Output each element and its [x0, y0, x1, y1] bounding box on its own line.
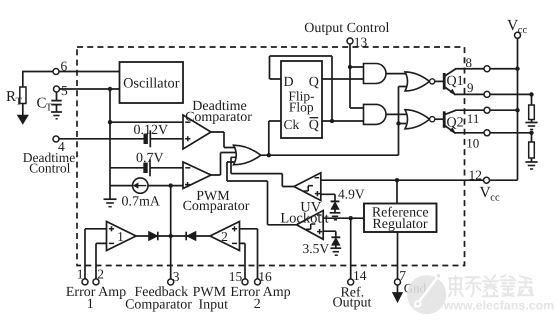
svg-text:16: 16 [258, 269, 272, 284]
deadtime comparator triangle [183, 115, 211, 149]
svg-text:2: 2 [97, 266, 104, 281]
UV comp1 hysteresis symbol [304, 186, 313, 191]
svg-text:Comparator: Comparator [125, 297, 192, 312]
node pin11 to Vcc rail [515, 108, 519, 112]
svg-text:cc: cc [518, 25, 528, 36]
pin 7 terminal [395, 279, 401, 285]
wire 3.5V zener to ground [335, 245, 337, 248]
svg-text:Output: Output [333, 296, 372, 311]
wire flip-flop Qbar to AND2 [322, 120, 365, 122]
wire flip-flop D loop from Qbar [270, 56, 333, 121]
svg-text:T: T [16, 97, 23, 108]
AND gate 2 [364, 104, 387, 124]
wire after 0.7V battery [151, 167, 184, 169]
PWM comparator plus [185, 182, 190, 187]
wire UV comp2 plus to 3.5V zener [323, 231, 336, 237]
svg-text:0.12V: 0.12V [134, 123, 169, 138]
error amp 2 minus [232, 242, 237, 244]
svg-text:Lockout: Lockout [280, 210, 328, 226]
svg-text:11: 11 [467, 111, 480, 126]
node CT sawtooth at pin5 wire [108, 87, 112, 91]
wire UV comp1 plus to 4.9V zener [320, 194, 335, 201]
diode D2 [187, 232, 196, 241]
error amp 2 plus [232, 226, 237, 231]
svg-text:R: R [6, 89, 16, 105]
transistor Q1 emitter arrow [450, 89, 455, 94]
wire pin5 to oscillator [57, 88, 120, 90]
svg-text:Ck: Ck [284, 117, 300, 132]
error amp 2 triangle [210, 222, 240, 251]
svg-text:Q2: Q2 [447, 116, 464, 131]
node ref output junction [349, 216, 353, 220]
pin 8 terminal [484, 66, 490, 72]
svg-text:9: 9 [467, 80, 474, 95]
svg-text:13: 13 [354, 34, 368, 49]
wire pin10 row to load [454, 132, 532, 134]
svg-text:15: 15 [229, 269, 243, 284]
svg-text:4.9V: 4.9V [338, 186, 365, 201]
reference regulator box [364, 204, 437, 233]
svg-text:10: 10 [466, 136, 479, 151]
wire Q2 emitter [444, 125, 455, 133]
svg-text:8: 8 [466, 55, 473, 70]
node feedback diode junction [169, 234, 173, 238]
transistor Q2 emitter arrow [450, 128, 455, 133]
node pin8 to Vcc rail [515, 67, 519, 71]
wire clock to flip-flop Ck [269, 121, 281, 155]
watermark logo disc [407, 275, 446, 314]
Qbar overline [310, 117, 319, 119]
wire diode row node [136, 235, 210, 237]
capacitor CT bottom lead [56, 105, 58, 112]
UV comp1 plus [315, 191, 320, 196]
deadtime comparator plus [185, 136, 190, 141]
UV comparator 2 triangle [297, 211, 324, 240]
svg-text:5: 5 [61, 83, 68, 98]
pin 3 terminal [168, 279, 174, 285]
wire pin6 to oscillator [22, 71, 120, 73]
wire reference regulator to pin7 ground [397, 232, 399, 294]
wire flip-flop Q to AND1 [322, 78, 365, 80]
UV comp2 minus [317, 214, 322, 216]
pin 13 terminal [347, 38, 353, 44]
wire 0.7V to PWM minus [110, 167, 144, 169]
pin 14 terminal [348, 279, 354, 285]
wire 4.9V zener to ground [334, 209, 336, 213]
RT down arrow [18, 115, 28, 124]
deadtime comparator minus [185, 121, 190, 123]
zener 4.9V [331, 200, 340, 202]
flip-flop box [281, 61, 322, 138]
Vcc terminal terminal [515, 32, 521, 38]
UV comp1 minus [315, 177, 320, 179]
wire PWM comp output to OR [211, 153, 238, 176]
svg-text:Q: Q [309, 118, 319, 133]
error amp 1 minus [109, 242, 114, 244]
wire EA2 minus to pin15 [240, 243, 246, 279]
wire RT bottom lead [22, 104, 24, 117]
wire UV comp1 output to OR [231, 157, 295, 186]
wire PWM signal to NOR inputs [399, 87, 407, 156]
NOR gate 1 [405, 72, 430, 91]
wire Q1 emitter [444, 87, 455, 95]
battery 0.7V [143, 163, 147, 173]
wire deadtime minus input [110, 121, 184, 123]
svg-text:1: 1 [77, 266, 84, 281]
node pin10 to load R2 [529, 131, 533, 135]
wire pin9 row to load [454, 93, 532, 95]
svg-text:T: T [46, 103, 53, 114]
node clock junction [267, 153, 271, 157]
diode D1 [149, 232, 158, 241]
svg-text:Flop: Flop [289, 100, 314, 115]
svg-text:0.7mA: 0.7mA [122, 195, 161, 210]
pin 10 terminal [484, 130, 490, 136]
svg-text:14: 14 [353, 268, 367, 283]
pin 1 terminal [82, 279, 88, 285]
transistor Q1 base bar [443, 73, 446, 90]
svg-text:2: 2 [254, 297, 261, 312]
svg-text:Oscillator: Oscillator [123, 76, 180, 92]
wire branch to NOR2 input [399, 123, 407, 125]
svg-text:Error Amp: Error Amp [66, 285, 126, 300]
svg-text:Input: Input [199, 297, 229, 312]
wire emitter load R1 leads [531, 94, 533, 122]
svg-text:1: 1 [117, 229, 124, 244]
node Qbar-D loop junction [330, 119, 334, 123]
pin 16 terminal [255, 279, 261, 285]
wire UV comp2 output to OR [227, 162, 297, 225]
wire AND2 to NOR2 [386, 113, 407, 115]
UV comp2 hysteresis symbol [306, 224, 315, 229]
wire feedback vertical to pin3 [170, 186, 172, 280]
wire Q2 collector [444, 110, 456, 114]
wire pin14 ref output [350, 218, 352, 280]
svg-text:3.5V: 3.5V [303, 241, 330, 256]
error amp 1 triangle [107, 222, 137, 251]
IC boundary dashed box [77, 47, 465, 266]
pin 6 terminal [53, 69, 59, 75]
wire pin11 row to Vcc [455, 109, 518, 111]
wire AND1 to NOR1 [385, 73, 406, 75]
wire OR gate output [261, 154, 399, 156]
wire emitter load R2 leads [531, 133, 533, 162]
watermark chinese text [449, 275, 533, 296]
emitter load resistor R2 [529, 142, 535, 158]
pin 12 terminal [484, 177, 490, 183]
ground under sawtooth bus [104, 198, 117, 200]
emitter load resistor R1 [529, 105, 535, 120]
svg-text:Regulator: Regulator [372, 217, 428, 232]
wire EA2 plus to pin16 [240, 229, 258, 280]
zener 3.5V [331, 236, 340, 238]
svg-text:12: 12 [469, 167, 483, 182]
svg-text:6: 6 [61, 59, 68, 74]
ground under load R2 [525, 161, 537, 163]
OR gate (deadtime/PWM/UV) [234, 145, 261, 165]
capacitor CT top lead [56, 89, 58, 100]
pin 9 terminal [484, 91, 490, 97]
wire deadtime comp output to OR [211, 132, 238, 148]
error amp 1 plus [109, 226, 114, 231]
pin7 ground arrow [393, 293, 403, 302]
svg-text:0.7V: 0.7V [136, 151, 164, 166]
svg-text:Control: Control [29, 160, 71, 175]
wire current source to PWM plus [148, 185, 184, 187]
node PWM signal to NOR2 junction [396, 121, 400, 125]
transistor Q2 base bar [443, 111, 446, 128]
node pin13 to AND1 junction [348, 65, 352, 69]
svg-text:2: 2 [221, 229, 228, 244]
NOR gate 2 [405, 110, 430, 129]
wire current source left [110, 185, 133, 187]
watermark logo cut line [415, 274, 441, 308]
svg-text:Output Control: Output Control [304, 21, 389, 36]
pin 15 terminal [242, 279, 248, 285]
battery 0.12V [144, 134, 148, 144]
current source 0.7mA [133, 178, 148, 193]
wire after 0.12V battery [151, 138, 184, 140]
ground under 3.5V zener [330, 247, 341, 249]
wire UV comp2 minus to reference regulator [323, 217, 365, 219]
wire Vcc rail [517, 38, 519, 180]
ground under 4.9V zener [330, 212, 341, 214]
svg-text:cc: cc [490, 192, 500, 203]
node Vcc to reference regulator [395, 178, 399, 182]
ground under load R1 [525, 122, 537, 124]
node feedback at PWM plus [169, 183, 173, 187]
PWM comparator triangle [183, 162, 211, 189]
wire Q1 collector [444, 69, 456, 77]
wire NOR1 to Q1 base [435, 80, 444, 82]
wire EA1 plus to pin1 [85, 229, 107, 280]
svg-text:Comparator: Comparator [183, 199, 250, 214]
UV comparator 1 triangle [294, 173, 321, 201]
ground under CT [51, 111, 62, 113]
svg-text:Q1: Q1 [447, 74, 464, 89]
resistor RT lead [22, 72, 24, 88]
svg-text:1: 1 [87, 297, 94, 312]
AND gate 1 [364, 64, 387, 84]
node deadtime ramp junction [108, 120, 112, 124]
wire pin13 output control [350, 44, 365, 109]
wire Vcc feed to reference regulator [396, 180, 398, 203]
pin 5 terminal [54, 86, 60, 92]
wire NOR2 to Q2 base [435, 118, 444, 120]
pin 11 terminal [484, 107, 490, 113]
capacitor CT [51, 100, 61, 102]
svg-text:Comparator: Comparator [185, 110, 252, 125]
oscillator box [120, 62, 184, 103]
pin 4 terminal [53, 136, 59, 142]
UV comp2 plus [317, 229, 322, 234]
svg-text:www.elecfans.com: www.elecfans.com [443, 299, 554, 313]
PWM comparator minus [185, 167, 190, 169]
svg-text:3: 3 [173, 269, 180, 284]
wire pin12 Vcc row to UV comp1 minus [321, 179, 518, 181]
resistor RT [20, 87, 26, 104]
wire pin4 deadtime control [56, 138, 144, 140]
node sawtooth vertical bus [109, 89, 111, 199]
pin 2 terminal [93, 279, 99, 285]
wire EA1 minus to pin2 [96, 243, 107, 279]
node pin9 to load R1 [529, 92, 533, 96]
wire pin8 row to Vcc [455, 68, 518, 70]
